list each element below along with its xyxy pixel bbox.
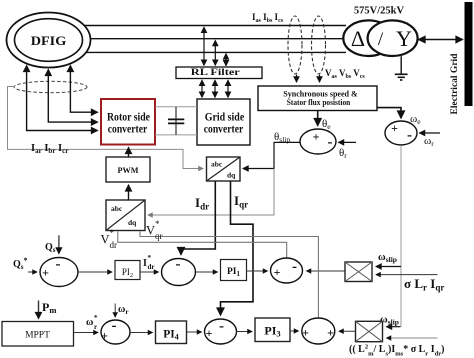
capacitor DC link (168, 107, 184, 135)
svg-text:Idr: Idr (195, 195, 209, 212)
wire stator phase line c (84, 51, 346, 53)
svg-text:Vas Vbs Vcs: Vas Vbs Vcs (325, 68, 365, 80)
wire M2 output to junction J6 (339, 330, 356, 332)
wire omega_r input stub (420, 132, 441, 134)
svg-text:Electrical Grid: Electrical Grid (450, 53, 460, 115)
wire RL filter to grid side converter phase b (double arrow) (214, 80, 216, 97)
wire omega_slip into multiplier 2 (387, 326, 401, 328)
block rotor side converter (red) (101, 99, 155, 145)
svg-text:+: + (42, 266, 49, 280)
svg-text:Iqr: Iqr (234, 193, 248, 210)
wire Iqr measurement from abc-dq to junction J5 (221, 181, 254, 315)
wire PI4 to J5 (187, 331, 202, 333)
wire rotor current measurement gray feedback (8, 87, 204, 169)
svg-text:dr: dr (148, 263, 155, 271)
wire stator phase line b (90, 38, 344, 40)
summing junction J2 (162, 259, 196, 286)
svg-text:converter: converter (204, 124, 244, 136)
current transformer dashed ellipse (stator currents) (288, 16, 302, 74)
summing junction omega (Jw) (385, 121, 417, 145)
wire voltage measurement into sync block (319, 75, 321, 83)
wire Qs* input (28, 271, 37, 273)
block PI3 (255, 318, 290, 342)
svg-text:-: - (407, 128, 412, 144)
svg-text:Pm: Pm (42, 300, 56, 315)
svg-text:ωr: ωr (424, 135, 434, 148)
wire MPPT to J4 (74, 332, 99, 334)
svg-text:dq: dq (128, 218, 137, 227)
ground symbol (395, 74, 408, 80)
wire omega_e sync block to omega summing junction (377, 108, 401, 118)
svg-text:-: - (328, 135, 333, 151)
svg-text:PWM: PWM (118, 166, 139, 175)
svg-text:(( L2m/ Ls)Ims* σ Lr Idr): (( L2m/ Ls)Ims* σ Lr Idr) (349, 344, 444, 358)
wire Idr measurement from abc-dq to junction J2 (181, 181, 215, 255)
block RL Filter (176, 67, 262, 79)
wire J4 to PI4 (130, 332, 153, 334)
wire J5 to PI3 (237, 331, 253, 333)
svg-text:*: * (155, 219, 160, 229)
wire flux term input to M2 (387, 337, 438, 339)
wire omega_r feedback stub (114, 304, 116, 318)
summing junction J5 (205, 319, 237, 344)
voltage transformer dashed ellipse (stator voltages) (312, 16, 326, 74)
svg-text:V: V (101, 233, 110, 247)
summing junction J1 (40, 258, 78, 287)
wire Qs feedback stub (58, 235, 60, 253)
svg-text:575V/25kV: 575V/25kV (354, 6, 405, 17)
svg-text:Rotor side: Rotor side (107, 112, 150, 124)
wire DC link lower rail (155, 134, 197, 136)
wire theta_r input stub (339, 141, 357, 143)
block MPPT (2, 322, 74, 347)
svg-text:qr: qr (155, 231, 163, 241)
svg-text:converter: converter (108, 124, 148, 136)
multiplier M1 (345, 262, 372, 282)
svg-text:r: r (94, 323, 97, 331)
generator DFIG inner ellipse (15, 19, 83, 62)
wire RL filter to grid side converter phase c (double arrow) (227, 80, 229, 97)
summing junction theta (Je) (300, 129, 336, 154)
block PWM (106, 157, 150, 182)
wire phase a tap to RL filter (double arrow) (203, 27, 205, 65)
wire DC link upper rail (155, 106, 197, 108)
block dq to abc transform (rotor voltages) (106, 200, 145, 231)
svg-text:Iar Ibr Icr: Iar Ibr Icr (31, 143, 68, 155)
block synchronous speed and stator flux position (258, 86, 377, 111)
wire PI1 to J3 (247, 270, 268, 272)
wire Pm input to MPPT (38, 301, 40, 319)
wire Vdr* return line (118, 232, 287, 259)
svg-text:θr: θr (339, 147, 347, 160)
wire M1 output to junction J3 (307, 270, 346, 272)
electrical grid bus bar (465, 2, 473, 106)
multiplier M2 (356, 321, 383, 341)
wire rotor phase a DFIG to rotor side converter (70, 66, 97, 113)
svg-text:-: - (219, 319, 224, 335)
svg-text:RL Filter: RL Filter (191, 68, 241, 78)
wire phase b tap to RL filter (double arrow) (214, 41, 216, 66)
wire stator phase line a (84, 25, 346, 27)
svg-text:+: + (391, 121, 398, 135)
svg-text:*: * (94, 314, 98, 322)
wire rotor phase c DFIG to rotor side converter (27, 66, 98, 131)
svg-text:Grid side: Grid side (205, 112, 245, 124)
svg-text:Y: Y (396, 26, 412, 51)
svg-text:MPPT: MPPT (25, 331, 50, 341)
wire RL filter to grid side converter phase a (double arrow) (201, 80, 203, 97)
svg-text:*: * (110, 228, 115, 238)
wire J2 to PI1 (196, 271, 218, 273)
svg-text:Ias Ibs Ics: Ias Ibs Ics (252, 12, 284, 24)
wire J1 to PI2 (78, 271, 112, 273)
wire dq-abc block to PWM (128, 185, 130, 200)
wire omega_slip vertical feedback line (400, 145, 402, 326)
wire PI2 to J2 (140, 271, 159, 273)
svg-text:-: - (292, 259, 297, 275)
transformer T1 left winding (delta) (343, 20, 393, 56)
svg-text:ωr: ωr (118, 304, 128, 316)
transformer T1 right winding (wye) (368, 20, 418, 56)
svg-text:+: + (206, 326, 213, 340)
svg-text:+: + (302, 326, 309, 340)
summing junction J3 (271, 258, 303, 283)
block abc to dq transform (rotor currents) (207, 157, 241, 181)
block grid side converter (197, 99, 250, 145)
block PI1 (221, 260, 247, 281)
svg-text:+: + (327, 326, 334, 340)
svg-text:dr: dr (110, 240, 118, 250)
wire omega_slip into multiplier 1 (376, 266, 401, 268)
svg-text:ω: ω (86, 317, 93, 328)
svg-text:Δ: Δ (351, 26, 365, 51)
wire Vqr* return line (140, 232, 318, 319)
wire transformer ground lead (400, 56, 402, 74)
block PI2 (115, 261, 140, 280)
summing junction J6 (302, 318, 335, 344)
svg-text:abc: abc (211, 160, 223, 169)
svg-text:-: - (56, 257, 61, 273)
svg-text:V: V (146, 224, 155, 238)
svg-text:-: - (176, 257, 181, 273)
svg-text:I: I (143, 258, 147, 269)
svg-text:ωslip: ωslip (378, 252, 397, 264)
svg-text:Qs: Qs (45, 242, 56, 254)
svg-text:DFIG: DFIG (31, 33, 67, 48)
wire current measurement into sync block (296, 75, 298, 83)
wire theta_e sync block to theta summing junction (317, 111, 319, 126)
svg-text:+: + (101, 329, 108, 343)
rotor slip-ring dashed ellipse (14, 81, 87, 92)
svg-text:abc: abc (111, 204, 123, 213)
wire PI3 to J6 (290, 330, 299, 332)
svg-text:Stator flux posistion: Stator flux posistion (287, 97, 351, 107)
wire PWM to rotor side converter (128, 148, 130, 158)
wire theta_slip to abc-dq block (243, 142, 300, 168)
svg-text:*: * (148, 254, 152, 262)
wire rotor phase b DFIG to rotor side converter (48, 70, 97, 123)
svg-text:Qs*: Qs* (13, 256, 28, 271)
wire transformer to electrical grid (double arrow) (419, 39, 463, 41)
svg-text:/: / (378, 29, 384, 50)
svg-text:+: + (313, 130, 320, 144)
block PI4 (156, 321, 187, 344)
wire phase c tap to RL filter (double arrow) (225, 54, 227, 66)
summing junction J4 (101, 320, 130, 344)
wire theta_slip gray branch to dq-abc block (148, 169, 274, 216)
svg-text:dq: dq (227, 171, 236, 180)
svg-text:-: - (112, 318, 117, 334)
generator DFIG outer ellipse (7, 13, 91, 68)
svg-text:+: + (274, 265, 281, 279)
svg-text:σ Lr Iqr: σ Lr Iqr (404, 276, 444, 293)
wire sigma Lr Iqr input to M1 (376, 274, 438, 276)
